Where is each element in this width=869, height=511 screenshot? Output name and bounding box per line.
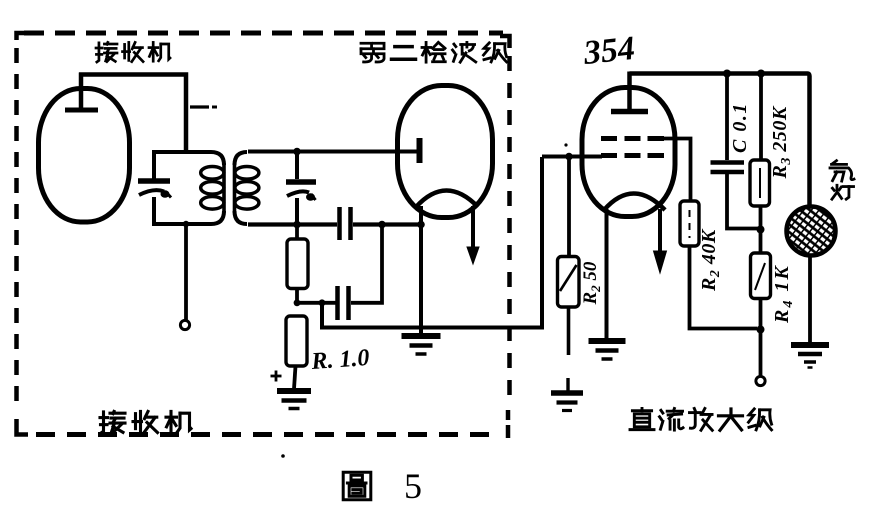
wire node to R4 (759, 230, 763, 254)
scan speck 3 (429, 344, 432, 347)
tube V3 plate lead (627, 72, 632, 112)
ground under tube V2 (402, 333, 441, 339)
svg-text:354: 354 (581, 30, 637, 72)
tube V3 cathode lead left (605, 209, 609, 338)
receiver enclosure dashed border, left edge (14, 48, 19, 412)
wire secondary right side upper (295, 152, 299, 180)
resistor R1 body (286, 316, 307, 366)
ground under neon lamp (791, 342, 829, 348)
resistor R3 inner mark (759, 168, 761, 198)
wire 297 node down (295, 225, 299, 241)
svg-text:R4 1K: R4 1K (771, 264, 796, 324)
svg-text:R2 40K: R2 40K (698, 228, 723, 292)
resistor R4 inner mark (755, 263, 765, 290)
resistor R2 40K body (680, 201, 699, 246)
wire R3 branch upper (759, 74, 763, 161)
tube V2 cathode dome (416, 191, 478, 208)
inductor L1 primary coil loop 2 (201, 182, 224, 195)
receiver enclosure dashed border, top-right corner (500, 36, 510, 48)
wire secondary box left side (233, 163, 237, 213)
junction rail at R3 branch (757, 70, 765, 78)
plus sign battery polarity (271, 375, 282, 378)
wire primary box right side (222, 163, 226, 213)
wire bottom bus left segment (248, 222, 337, 226)
ground stub under R2 50 (566, 378, 569, 392)
vacuum tube V2 envelope (398, 86, 493, 218)
svg-text:R2 50: R2 50 (580, 261, 603, 305)
junction R4 bottom node (757, 326, 765, 334)
receiver enclosure dashed border, right edge (507, 56, 512, 404)
inductor L2 secondary coil loop 2 (235, 182, 259, 195)
variable capacitor C-a top plate (138, 178, 170, 184)
wire primary box left side lower (152, 197, 156, 224)
junction bottom bus at 297 (293, 221, 301, 229)
wire C branch upper (725, 74, 729, 161)
wire R3 to node (759, 206, 763, 229)
label 接收机 (receiver) top (97, 43, 99, 62)
tube V2 filament lead right (471, 206, 475, 250)
svg-text:C 0.1: C 0.1 (729, 102, 751, 153)
wire tap down to R2-50 (567, 157, 571, 258)
label 圖 5 (Figure 5) (343, 472, 371, 500)
wire R4 to output terminal (759, 299, 763, 377)
junction secondary top (293, 148, 301, 156)
tube V2 filament arrow (467, 247, 479, 264)
wire secondary box top corner (235, 152, 248, 165)
resistor R-upper body (287, 239, 308, 289)
junction bottom bus at 382 (378, 221, 386, 229)
label 弱二检波级 (stage label) top right (361, 43, 372, 48)
capacitor C 0.1 plates (711, 160, 745, 165)
wire takeoff to DC amplifier (322, 157, 542, 328)
inductor L2 secondary coil loop 1 (235, 167, 259, 180)
svg-text:R3 250K: R3 250K (769, 105, 794, 179)
receiver enclosure dashed border, bottom-left corner (17, 419, 29, 435)
scan speck 1 (281, 454, 285, 458)
variable capacitor C-b top plate (286, 179, 316, 185)
wire R1 to ground (294, 366, 296, 389)
junction primary bottom (183, 221, 189, 227)
vacuum tube V1 envelope (39, 89, 130, 223)
junction resistor divider (294, 299, 301, 306)
tube V3 cathode dome (604, 194, 665, 211)
vacuum tube V3 (354) envelope (582, 88, 675, 217)
wire bottom bus right segment (353, 222, 421, 226)
tube V2 cathode lead left (419, 206, 423, 333)
inductor L1 primary coil loop 3 (201, 197, 224, 210)
variable capacitor C-b bottom plate (arrow) (287, 191, 309, 196)
neon lamp NE body (787, 207, 836, 256)
receiver enclosure dashed border, bottom-right end (506, 410, 511, 438)
open terminal (antenna post) (180, 320, 189, 329)
junction bottom bus at 421 (417, 221, 425, 229)
tube V1 plate (65, 108, 98, 113)
wire R2 40K down and right (690, 246, 758, 329)
junction rail at C branch (723, 70, 731, 78)
tube V3 control grid dashes (601, 153, 617, 158)
wire primary box bottom (152, 211, 224, 224)
wire neon lamp to ground (808, 255, 812, 342)
wire V1 plate to coupling node (79, 75, 186, 153)
wire B+ rail (630, 74, 810, 208)
wire C2 to riser (351, 226, 382, 303)
ground under V3 cathode (589, 338, 626, 344)
capacitor C1 coupling plates (337, 207, 342, 240)
tube V3 filament arrow (654, 251, 667, 273)
wire screen grid out (664, 139, 691, 202)
wire grid bus into V3 (542, 155, 602, 159)
wire secondary right side lower (295, 198, 299, 224)
wire primary box top (152, 152, 224, 165)
scan speck 2 (564, 143, 567, 146)
tube V3 plate (611, 109, 648, 115)
resistor R4 1K body (751, 253, 771, 299)
ground under R2 50 (551, 390, 583, 396)
wire junction to C2 (297, 301, 336, 305)
wire C branch lower (727, 174, 758, 229)
resistor R2 50 body (558, 257, 580, 308)
wire to antenna terminal (184, 226, 188, 320)
variable capacitor C-a bottom plate (arrow) (139, 190, 164, 195)
resistor R2 40K inner mark (689, 210, 691, 238)
ground under R1 (277, 388, 311, 394)
svg-text:R. 1.0: R. 1.0 (310, 345, 371, 375)
tube V3 filament lead right (658, 209, 662, 252)
receiver enclosure dashed border, top-left corner (17, 33, 25, 40)
receiver enclosure dashed border, top edge (24, 31, 503, 36)
tube V2 grid bar (417, 138, 423, 163)
resistor R2 50 diagonal (560, 265, 577, 291)
junction C/R3/R4 node (757, 226, 765, 234)
tube V1 plate lead (79, 73, 84, 111)
svg-text:5: 5 (404, 466, 422, 506)
junction grid bias tap (565, 153, 573, 161)
capacitor C2 coupling plates (335, 286, 340, 320)
receiver enclosure dashed border, bottom edge (36, 432, 498, 437)
label 接收机 (receiver) bottom (101, 412, 104, 433)
open terminal (output post) (756, 376, 765, 385)
inductor L2 secondary coil loop 3 (235, 197, 259, 210)
stub tap on plate wire (190, 105, 209, 108)
wire grid line to tube V2 (248, 150, 418, 154)
junction C2 left (319, 299, 326, 306)
inductor L1 primary coil loop 1 (201, 167, 224, 180)
tube V3 screen grid dashes (601, 136, 617, 141)
resistor R3 250K body (750, 160, 770, 206)
label 氖灯 (neon lamp) (833, 161, 837, 164)
wire primary box left side upper (152, 152, 156, 179)
label 直流放大级 (DC amplifier stage) (632, 409, 651, 412)
wire R-upper to junction (295, 288, 299, 303)
wire secondary box bottom corner (235, 211, 248, 224)
wire below R2 50 (567, 307, 571, 355)
